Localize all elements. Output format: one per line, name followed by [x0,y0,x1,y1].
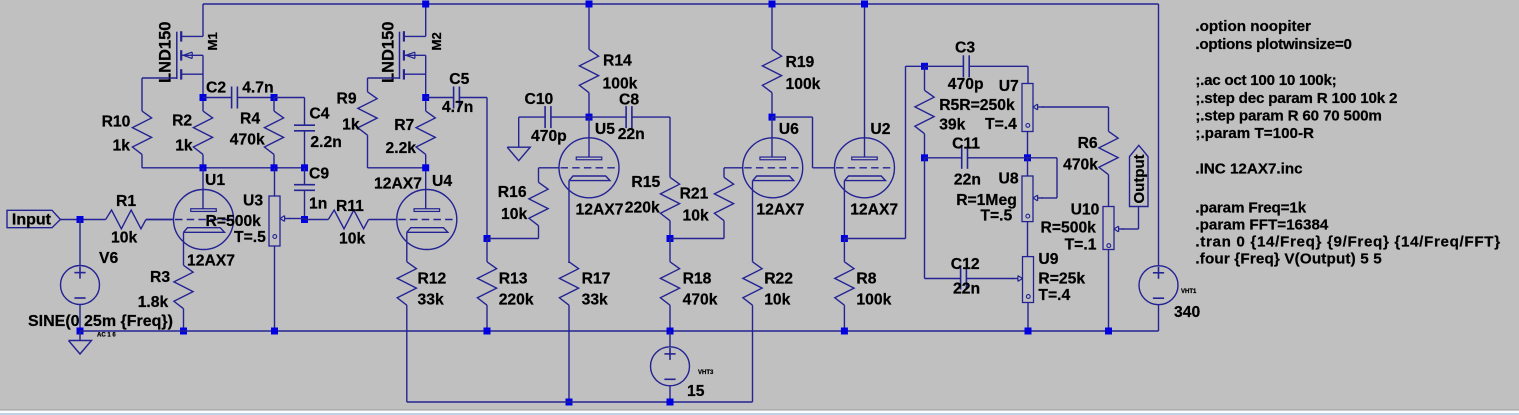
resistor R1 [60,219,106,221]
resistor R10 [141,78,143,111]
capacitor C4 [304,98,306,126]
wire U7 wiper to R6 [1042,106,1109,108]
svg-text:2.2k: 2.2k [386,140,417,157]
svg-text:R=250k: R=250k [959,97,1015,114]
node U5 plate [586,114,593,121]
svg-text:AC 1 6: AC 1 6 [97,333,116,339]
capacitor C2 [203,97,232,99]
voltage source VHT1 [1158,4,1160,266]
svg-text:T=.1: T=.1 [1065,237,1097,254]
wire U4 cathode [406,232,408,245]
ground C10 [518,117,520,147]
node U9 bottom [1025,328,1032,335]
svg-text:C12: C12 [951,256,980,273]
svg-text:U10: U10 [1071,202,1100,219]
resistor R15 [669,117,671,177]
svg-text:U9: U9 [1038,251,1058,268]
top rail B+ [203,3,1159,5]
svg-text:R5: R5 [939,97,959,114]
node R7 bottom [422,164,429,171]
node U6 plate [769,114,776,121]
svg-text:C4: C4 [309,106,329,123]
svg-text:R8: R8 [856,271,876,288]
node R18 bottom [667,328,674,335]
svg-text:U4: U4 [432,173,452,190]
svg-text:U2: U2 [870,121,890,138]
resistor R12 [406,245,408,262]
svg-text:C9: C9 [309,166,329,183]
resistor R8 [843,239,845,262]
svg-text:100k: 100k [603,76,638,93]
node R13 bottom [484,328,491,335]
svg-text:22n: 22n [953,281,980,298]
svg-text:;.param T=100-R: ;.param T=100-R [1195,125,1314,142]
svg-text:U1: U1 [205,172,225,189]
resistor R11 [305,219,329,221]
voltage source VHT3 [669,331,671,347]
svg-text:10k: 10k [501,206,527,223]
svg-text:1.8k: 1.8k [138,294,169,311]
svg-text:.options plotwinsize=0: .options plotwinsize=0 [1195,36,1351,53]
ground [79,331,81,341]
op-amp U6 triode [743,138,803,198]
svg-text:4.7n: 4.7n [442,99,473,116]
wire feedback to tone stack [844,238,905,240]
wire U8 wiper loop [1028,157,1058,159]
node V6 gnd [77,328,84,335]
potentiometer U10 [1103,207,1114,250]
node R17 bottom [566,399,573,406]
capacitor C12 [924,158,926,279]
svg-text:R22: R22 [764,271,793,288]
svg-text:33k: 33k [418,291,444,308]
op-amp U1 triode [174,190,234,250]
resistor R18 [669,239,671,262]
capacitor C8 [589,116,626,118]
svg-text:.param Freq=1k: .param Freq=1k [1195,199,1306,216]
svg-text:C10: C10 [525,91,554,108]
svg-text:10k: 10k [111,230,137,247]
wire U6 cathode / resistor R22 [752,181,754,262]
svg-text:R=500k: R=500k [206,213,262,230]
node M2 source [422,94,429,101]
svg-text:R14: R14 [603,52,632,69]
node Output flag [1130,145,1149,206]
capacitor C3 [925,65,964,67]
wire U1 cathode [183,232,185,245]
svg-text:T=.5: T=.5 [980,208,1012,225]
node M1 source junction [200,94,207,101]
svg-text:;.step param R 60 70 500m: ;.step param R 60 70 500m [1195,108,1381,125]
resistor R14 [588,4,590,49]
wire to C4 [274,97,305,99]
svg-text:R7: R7 [394,117,414,134]
svg-text:R1: R1 [116,193,136,210]
resistor R9 [367,78,369,92]
wire U5 cathode [568,181,570,263]
svg-text:C2: C2 [206,80,226,97]
svg-text:R=25k: R=25k [1038,271,1085,288]
node U10 bottom [1105,328,1112,335]
svg-text:R11: R11 [336,198,364,215]
svg-text:12AX7: 12AX7 [576,201,624,218]
svg-text:1k: 1k [342,117,360,134]
op-amp U4 triode [397,190,457,250]
op-amp U5 triode [559,138,619,198]
wire lower rail [407,401,753,403]
svg-text:10k: 10k [764,291,790,308]
node input junction [77,216,84,223]
svg-text:.four {Freq} V(Output) 5 5: .four {Freq} V(Output) 5 5 [1195,251,1382,268]
svg-text:22n: 22n [954,172,981,189]
potentiometer U3 [274,168,276,196]
svg-text:C3: C3 [955,40,975,57]
svg-text:R10: R10 [102,114,131,131]
svg-text:Output: Output [1131,154,1148,203]
node Input flag [7,210,60,227]
svg-text:T=.5: T=.5 [234,229,266,246]
node R14 top [586,1,593,8]
svg-text:10k: 10k [339,231,365,248]
svg-text:R3: R3 [150,269,170,286]
svg-text:R9: R9 [337,91,357,108]
svg-text:R13: R13 [499,271,528,288]
svg-text:22n: 22n [618,126,645,143]
svg-text:VHT1: VHT1 [1181,289,1197,295]
window bottom edge [0,410,1519,411]
resistor R16 [539,167,559,169]
svg-text:.param FFT=16384: .param FFT=16384 [1195,217,1329,234]
resistor R21 [723,168,725,178]
svg-text:1k: 1k [113,138,131,155]
resistor R17 [568,262,570,263]
svg-text:SINE(0 25m {Freq}): SINE(0 25m {Freq}) [28,313,173,330]
svg-text:M2: M2 [429,32,444,50]
op-amp U2 triode [835,138,895,198]
svg-text:.tran 0 {14/Freq} {9/Freq} {14: .tran 0 {14/Freq} {9/Freq} {14/Freq/FFT} [1195,234,1500,251]
svg-text:R19: R19 [786,54,815,71]
svg-text:470p: 470p [948,76,984,93]
svg-text:C8: C8 [619,92,639,109]
node C3 left [921,63,928,70]
svg-text:R6: R6 [1078,135,1098,152]
node R4 bottom [271,164,278,171]
resistor R19 [771,4,773,49]
wire U4 plate [425,168,427,209]
svg-text:R=500k: R=500k [1041,220,1097,237]
svg-text:LND150: LND150 [157,22,175,83]
svg-text:T=.4: T=.4 [1038,287,1070,304]
svg-text:VHT3: VHT3 [698,370,714,376]
svg-text:33k: 33k [582,291,608,308]
node R5 bottom [921,154,928,161]
wire U2 plate lead [864,4,866,157]
svg-text:.INC 12AX7.inc: .INC 12AX7.inc [1195,161,1302,178]
svg-text:LND150: LND150 [380,22,398,83]
node R15 bottom [667,235,674,242]
capacitor C11 [925,157,962,159]
svg-text:39k: 39k [939,117,965,134]
node R8 bottom [841,328,848,335]
wire U2 cathode [843,181,845,239]
wire U3 wiper [289,218,305,220]
resistor R6 [1108,107,1110,131]
svg-text:C5: C5 [449,71,469,88]
transistor M1 [180,31,182,41]
wire ground rail [80,330,1159,332]
wire U5 plate lead [588,117,590,157]
svg-text:12AX7: 12AX7 [187,252,235,269]
resistor R2 [202,98,204,112]
svg-text:1n: 1n [309,196,327,213]
node U2 cathode junction [841,235,848,242]
svg-text:15: 15 [687,383,705,400]
wire U1 grid [146,219,174,221]
svg-text:;.step dec param R 100 10k 2: ;.step dec param R 100 10k 2 [1195,90,1397,107]
wire U6 to U2 grid [772,116,813,118]
svg-text:470p: 470p [531,128,567,145]
node R16 junction [484,235,491,242]
wire U1 plate [202,168,204,209]
node R19 top [769,1,776,8]
wire R9 bottom [368,167,426,169]
node U7 bottom [1024,154,1031,161]
resistor R4 [273,98,275,112]
svg-text:Input: Input [12,212,52,229]
svg-text:U6: U6 [779,121,799,138]
potentiometer U7 [1027,66,1029,83]
node C9 bottom [301,216,308,223]
capacitor C10 [519,116,545,118]
wire U10 wiper to Output [1123,228,1139,230]
svg-text:R4: R4 [240,111,260,128]
capacitor C9 [304,168,306,185]
svg-text:R17: R17 [582,271,611,288]
svg-text:340: 340 [1174,304,1200,321]
potentiometer U8 [1027,158,1029,176]
svg-text:100k: 100k [786,76,821,93]
resistor R3 [183,245,185,265]
svg-text:R=1Meg: R=1Meg [956,192,1017,209]
svg-text:1k: 1k [175,138,193,155]
svg-text:R12: R12 [418,271,447,288]
svg-text:C11: C11 [952,136,980,153]
svg-text:V6: V6 [99,250,118,267]
wire bus anode1 [142,167,305,169]
svg-text:2.2n: 2.2n [310,134,341,151]
svg-text:R18: R18 [683,271,712,288]
wire M1 gate [142,77,177,79]
svg-text:220k: 220k [625,199,660,216]
svg-text:U7: U7 [999,78,1019,95]
node R2 bottom [200,164,207,171]
svg-text:12AX7: 12AX7 [850,201,898,218]
wire C5 down [486,98,488,239]
svg-text:R2: R2 [172,113,192,130]
resistor R13 [486,239,488,262]
svg-text:U5: U5 [595,121,615,138]
svg-text:12AX7: 12AX7 [756,201,804,218]
svg-text:12AX7: 12AX7 [374,175,422,192]
wire U6 plate lead [771,117,773,157]
svg-text:4.7n: 4.7n [242,80,273,97]
svg-text:10k: 10k [683,208,709,225]
svg-text:R15: R15 [631,174,660,191]
svg-text:U8: U8 [999,171,1019,188]
node VHT3 bottom [667,399,674,406]
svg-text:R16: R16 [498,184,527,201]
wire M2 gate [368,77,400,79]
voltage source V6 [79,220,81,266]
node U3 bottom [271,328,278,335]
svg-text:220k: 220k [499,291,534,308]
node M2 drain [422,1,429,8]
svg-text:T=.4: T=.4 [985,116,1017,133]
node C4 bottom [301,164,308,171]
svg-text:470k: 470k [1063,157,1098,174]
potentiometer U9 [1023,257,1034,303]
svg-text:R21: R21 [680,185,709,202]
resistor R5 [924,66,926,90]
transistor M2 [403,31,405,41]
svg-text:470k: 470k [683,291,718,308]
svg-text:470k: 470k [230,131,265,148]
svg-text:100k: 100k [856,291,891,308]
node R3 bottom [180,328,187,335]
svg-text:U3: U3 [243,193,263,210]
svg-text:.option noopiter: .option noopiter [1195,18,1311,35]
node U2 plate top [861,1,868,8]
svg-text:M1: M1 [205,32,220,50]
capacitor C5 [426,97,454,99]
svg-text:;.ac oct 100 10 100k;: ;.ac oct 100 10 100k; [1195,72,1336,89]
resistor R7 [425,98,427,112]
node C2-R4 [271,94,278,101]
